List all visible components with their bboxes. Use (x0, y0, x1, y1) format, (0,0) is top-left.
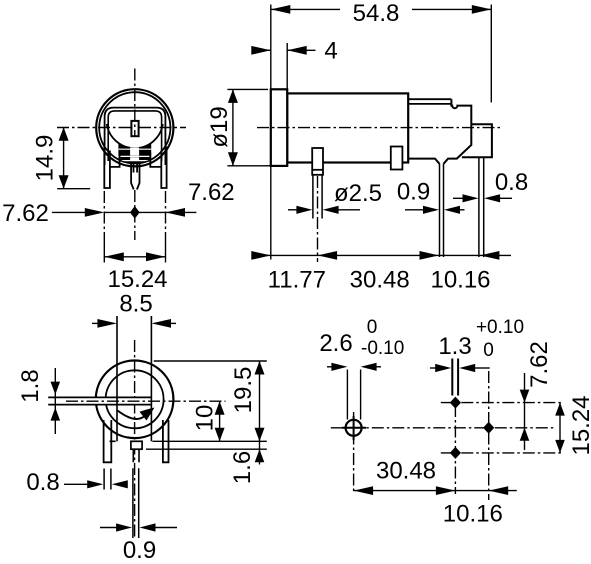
side view bushing lines (312, 175, 314, 218)
dimension 54.8 extension right (490, 5, 492, 103)
side view top tab (408, 98, 451, 100)
rear view outer circle (96, 361, 174, 439)
side bottom dimension line (255, 254, 511, 256)
svg-text:0: 0 (483, 340, 494, 361)
dimension 7.62 middle line with node (104, 211, 165, 213)
dimension 10 line (219, 401, 221, 441)
svg-text:1.8: 1.8 (17, 369, 44, 402)
side view right pin (478, 157, 480, 257)
rear view center pin lower (132, 468, 134, 538)
dimension 15.24 plan line (559, 403, 561, 453)
rear view slot centerline inner (66, 400, 226, 402)
side view mounting tab 2 (391, 147, 403, 170)
pin hole top (450, 397, 461, 409)
svg-text:10.16: 10.16 (443, 501, 503, 528)
side view centerline (257, 127, 502, 129)
rear view right pin (163, 420, 169, 462)
dimension 19.5 line (259, 361, 261, 441)
svg-text:10: 10 (192, 405, 219, 432)
dimension 7.62 right line (166, 211, 197, 213)
dimension 1.8 line (54, 368, 56, 434)
svg-text:1.3: 1.3 (438, 333, 471, 360)
hole plan left column centerline (353, 412, 355, 494)
dimension 7.62 left line (52, 211, 90, 213)
pin hole bottom (450, 447, 461, 459)
front view right step (150, 153, 161, 167)
dimension 4 extension (286, 43, 288, 89)
rear view body edge right (150, 316, 152, 441)
front view slot (131, 121, 138, 136)
side view flange (271, 89, 287, 166)
rear view rotation arrow (118, 411, 145, 419)
svg-text:1.6: 1.6 (229, 451, 256, 484)
side view body (287, 93, 408, 162)
dimension 54.8 extension left (270, 5, 272, 89)
svg-text:8.5: 8.5 (119, 291, 152, 318)
svg-text:2.6: 2.6 (319, 330, 352, 357)
dimension 8.5 line (92, 322, 102, 324)
dimension 0.8 rear line (64, 483, 88, 485)
hole plan middle column centerline (454, 405, 456, 494)
svg-text:15.24: 15.24 (107, 266, 167, 293)
svg-text:0: 0 (367, 317, 378, 338)
svg-text:0.8: 0.8 (26, 469, 59, 496)
hole plan top row centerline (441, 402, 563, 404)
front view right pin (161, 147, 166, 189)
dimension 15.24 line (104, 256, 165, 258)
rear view center pin stub (131, 441, 142, 449)
rear view left pin (104, 420, 112, 462)
svg-text:14.9: 14.9 (32, 135, 59, 182)
rear view left pin extension (103, 469, 105, 490)
svg-text:0.8: 0.8 (495, 169, 528, 196)
dimension 0.9 line (405, 209, 424, 211)
dimension 0.8 line (453, 197, 464, 199)
front view outer circle (96, 89, 173, 166)
rear view inner circle (106, 370, 164, 428)
side view bushing centerline (317, 176, 319, 262)
svg-text:11.77: 11.77 (268, 267, 326, 294)
dimension 7.62 plan line (524, 373, 526, 403)
side view mounting tab 1 (312, 148, 323, 175)
front view center pin (131, 164, 139, 190)
front view vertical centerline lower (134, 190, 136, 240)
rear view shoulder extension (152, 440, 266, 442)
front view left pin (104, 147, 110, 189)
dimension 14.9 line (63, 127, 65, 188)
front view inner bottom arc (107, 124, 163, 148)
rear view center pin upper (132, 449, 134, 462)
svg-text:ø19: ø19 (206, 106, 233, 147)
dimension 54.8 line (271, 8, 340, 10)
svg-text:15.24: 15.24 (568, 395, 591, 455)
front view rotor rounded square inner (108, 111, 161, 161)
svg-text:30.48: 30.48 (350, 267, 410, 294)
dimension dia2.5 line (288, 209, 298, 211)
svg-text:7.62: 7.62 (2, 200, 49, 227)
hole plan right column centerline (488, 371, 490, 500)
rear view vertical centerline (134, 340, 136, 538)
hole extension lines (346, 370, 348, 420)
dimension 1.6 tail (259, 449, 261, 464)
svg-text:4: 4 (324, 38, 337, 65)
front view rotor rounded square outer (105, 108, 166, 165)
rear view body edge left (116, 316, 118, 441)
rear view top extension (154, 360, 267, 362)
dimension dia19 line (232, 89, 234, 165)
hole plan middle row centerline (331, 427, 555, 429)
svg-text:30.48: 30.48 (376, 458, 436, 485)
dimension 2.6 line (327, 366, 333, 368)
svg-text:7.62: 7.62 (188, 179, 235, 206)
plan bottom dimension line (354, 490, 517, 492)
front view vertical centerline upper (134, 69, 136, 138)
rear view stub extension (146, 448, 267, 450)
svg-text:ø2.5: ø2.5 (334, 180, 382, 207)
front view second circle (99, 92, 170, 163)
svg-text:0.9: 0.9 (123, 537, 156, 564)
dimension 14.9 extension line bottom (57, 188, 90, 190)
svg-text:10.16: 10.16 (430, 267, 490, 294)
svg-text:+0.10: +0.10 (476, 317, 524, 338)
dimension dia19 extensions (227, 88, 268, 90)
side view rear bracket (462, 124, 492, 157)
svg-text:7.62: 7.62 (526, 341, 553, 388)
hole plan bottom row centerline (441, 452, 563, 454)
pin slot 1.3 (451, 359, 453, 396)
pin hole right (483, 422, 494, 434)
mounting hole 2.6 (346, 420, 362, 436)
svg-text:-0.10: -0.10 (361, 338, 404, 359)
svg-text:54.8: 54.8 (353, 0, 400, 27)
front right pin extension line (165, 191, 167, 240)
dimension 4 line (255, 49, 271, 51)
dimension 1.3 line (430, 367, 436, 369)
side view flange extension (270, 167, 272, 260)
front view horizontal centerline (57, 127, 186, 129)
svg-text:0.9: 0.9 (397, 179, 430, 206)
rear view slot (48, 397, 151, 405)
dimension 0.9 rear line (100, 527, 117, 529)
side view rear block (408, 99, 471, 164)
front left pin extension line (103, 191, 105, 240)
dimension 1.6 line (259, 441, 261, 449)
rear view shoulder line left (110, 440, 116, 442)
svg-text:19.5: 19.5 (230, 367, 257, 414)
front view left step (110, 153, 119, 167)
side view center pin (439, 164, 441, 257)
